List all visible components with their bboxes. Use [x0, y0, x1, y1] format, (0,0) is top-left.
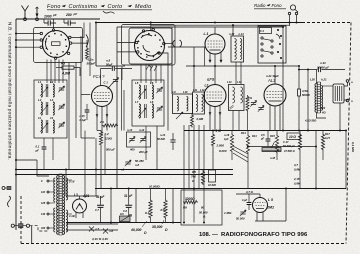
trimmer cap: [157, 89, 162, 91]
svg-text:L6: L6: [150, 81, 154, 85]
wire y47 left: [168, 46, 205, 48]
bracket symbol: [86, 35, 88, 48]
ground arrow: [36, 7, 38, 16]
svg-text:n.12: n.12: [139, 128, 145, 132]
svg-text:4,7 Ω: 4,7 Ω: [245, 190, 254, 194]
wire below speaker: [339, 103, 341, 131]
svg-text:50.000: 50.000: [236, 217, 245, 221]
svg-text:L.1: L.1: [204, 32, 209, 36]
svg-text:4Ω: 4Ω: [321, 111, 325, 115]
wire IF2 bottom leads: [232, 111, 234, 131]
wire left of FC4: [80, 36, 82, 138]
svg-text:μF: μF: [260, 138, 265, 141]
cap n.15 0,1uF: [85, 110, 90, 112]
svg-text:35,000: 35,000: [152, 225, 162, 229]
svg-text:Ω.: Ω.: [202, 215, 206, 219]
svg-text:4,8M: 4,8M: [61, 72, 71, 76]
wire S2 top to bus: [150, 23, 152, 32]
switch box radio/fono S3: [258, 26, 286, 63]
svg-text:Cortissimo: Cortissimo: [69, 4, 98, 10]
wire 2M1 bottom: [256, 212, 258, 221]
IF transformer row1: [231, 36, 244, 62]
trimmer C16: [258, 108, 263, 110]
resistor under FC4: [102, 124, 118, 127]
wire S1 right contacts: [71, 30, 84, 37]
svg-text:L10: L10: [183, 90, 188, 94]
svg-text:N.B. I commutatori sono indica: N.B. I commutatori sono indicati nella p…: [8, 22, 13, 160]
AL3 leads: [274, 66, 276, 84]
antenna: [24, 11, 26, 19]
svg-text:L7: L7: [135, 100, 139, 104]
svg-text:0,1μF: 0,1μF: [80, 119, 87, 122]
capacitor n.14: [170, 140, 175, 142]
capacitor 0,1uF left: [42, 147, 47, 149]
svg-text:pF: pF: [73, 12, 78, 16]
tone network resistors: [230, 133, 233, 153]
wire dashed right border: [346, 23, 351, 244]
wire mains to transformer: [30, 226, 49, 231]
wire x136: [135, 189, 137, 223]
svg-text:10.000Ω: 10.000Ω: [149, 185, 161, 189]
svg-text:C.17: C.17: [283, 140, 289, 144]
wire x157: [156, 126, 158, 170]
svg-text:pF: pF: [52, 13, 57, 17]
svg-text:120Ω: 120Ω: [105, 137, 113, 141]
svg-text:R5: R5: [192, 170, 196, 174]
wire x346: [345, 131, 347, 189]
S2 contacts: [135, 41, 137, 43]
svg-text:6F9: 6F9: [207, 77, 215, 82]
svg-text:n.10: n.10: [229, 32, 235, 36]
wire dashed mains left: [20, 196, 22, 244]
svg-text:110: 110: [41, 191, 46, 194]
svg-text:11: 11: [38, 116, 41, 120]
svg-text:1 MΩ: 1 MΩ: [224, 211, 232, 215]
wire plug down: [31, 226, 33, 244]
trimmer 50000: [240, 212, 245, 214]
svg-text:2,15: 2,15: [293, 177, 300, 181]
svg-text:R.6: R.6: [161, 208, 166, 212]
band switch S2: [135, 31, 165, 61]
S1 contacts: [40, 32, 42, 34]
svg-text:o: o: [351, 99, 353, 103]
resistor R6: [149, 199, 152, 219]
primary taps: [49, 180, 55, 182]
svg-text:n.13: n.13: [239, 32, 245, 36]
svg-text:200 μF: 200 μF: [138, 150, 148, 154]
wire left link y160: [16, 159, 37, 161]
diagonal wires: [233, 146, 248, 154]
wire long bus y188: [95, 188, 346, 190]
potentiometer volume: [120, 216, 131, 222]
wire x124: [123, 90, 125, 131]
wire coil box stubs: [52, 138, 54, 160]
wire x76 drop: [75, 63, 77, 139]
6F9 leads: [214, 66, 216, 85]
FC4 cathode leads: [96, 106, 98, 131]
wire bottom bus y222: [66, 222, 181, 224]
svg-text:RADIOFONOGRAFO TIPO 996: RADIOFONOGRAFO TIPO 996: [221, 232, 308, 238]
wire x105 drop: [104, 135, 106, 175]
wire x96 mid: [95, 138, 97, 170]
box shield around S2: [129, 28, 172, 64]
trimmer C15: [251, 103, 256, 105]
IF transformer T1 L11 L12: [193, 92, 205, 114]
svg-text:R14: R14: [252, 135, 257, 138]
svg-text:L3: L3: [74, 193, 78, 197]
wire y27 sub-bus: [117, 26, 283, 28]
svg-text:3200Ω: 3200Ω: [185, 197, 195, 201]
pilot lamps L7 L8: [66, 223, 118, 225]
box outer shield S2: [122, 25, 176, 66]
wire left vertical bus: [15, 19, 17, 230]
trimmer C1: [113, 80, 118, 82]
svg-text:160: 160: [41, 227, 46, 230]
svg-text:R15: R15: [270, 134, 275, 138]
wire x233 IF1 feed: [232, 25, 234, 36]
speaker terminals: [346, 80, 349, 83]
field coil R9 3200: [181, 190, 222, 225]
svg-text:0,9M: 0,9M: [197, 117, 204, 121]
wire misc top-left: [83, 23, 85, 31]
svg-text:C.7: C.7: [95, 209, 100, 212]
wire x121.5: [121, 69, 123, 131]
svg-text:2.800: 2.800: [216, 144, 225, 148]
svg-text:47.500 Ω: 47.500 Ω: [283, 149, 295, 153]
wire heater bus lower: [16, 174, 233, 176]
filter box: [110, 189, 112, 223]
svg-text:4,1V R 4,3V: 4,1V R 4,3V: [91, 237, 109, 241]
wire switchbox to bus: [282, 60, 284, 63]
svg-text:n.33: n.33: [320, 61, 326, 65]
svg-text:R13: R13: [241, 131, 246, 135]
svg-text:4,5Ω 50Ω: 4,5Ω 50Ω: [304, 119, 316, 123]
capacitor 0,5uF: [266, 139, 271, 141]
resistor R2 120ohm: [99, 131, 102, 147]
svg-text:0,8M: 0,8M: [294, 182, 301, 186]
capacitor n.9 50uF: [112, 66, 114, 71]
FC4 top lead: [101, 69, 112, 87]
svg-text:C.8: C.8: [123, 210, 128, 213]
svg-text:o: o: [351, 80, 353, 84]
wire under switches y66: [96, 65, 125, 67]
svg-text:5 M: 5 M: [216, 129, 222, 133]
wire pickup leads: [289, 15, 291, 26]
svg-text:Ω: Ω: [164, 228, 168, 232]
resistor 10ohm boxed: [287, 133, 300, 140]
trimmer cap next to 11: [59, 124, 64, 126]
svg-text:n.22: n.22: [320, 106, 326, 110]
svg-text:4,7: 4,7: [293, 163, 298, 167]
svg-text:50.000 μF: 50.000 μF: [283, 144, 295, 148]
svg-text:760: 760: [191, 175, 196, 179]
svg-text:2 A: 2 A: [99, 120, 104, 124]
svg-text:50.000: 50.000: [157, 137, 165, 141]
wire plate bus y66: [186, 65, 299, 67]
resistor R8: [246, 95, 249, 112]
svg-text:R9: R9: [183, 206, 187, 210]
box middle section border: [116, 27, 118, 189]
svg-text:L7: L7: [96, 227, 100, 231]
trimmer n.8 padder: [125, 162, 130, 164]
heater drops: [65, 170, 67, 197]
trimmer cap: [157, 108, 162, 110]
svg-text:FC4 ?: FC4 ?: [93, 74, 105, 79]
power transformer T4: [59, 174, 62, 235]
capacitor 1uF box: [209, 170, 216, 182]
wire x69 drop: [68, 63, 70, 170]
svg-text:A21: A21: [82, 194, 89, 198]
wire x37 drop: [37, 160, 49, 176]
svg-text:280: 280: [65, 13, 72, 17]
wire S2 right contacts: [165, 43, 172, 45]
wire x308: [307, 70, 309, 131]
svg-text:Corto: Corto: [108, 4, 123, 10]
wire x283: [282, 27, 284, 131]
svg-text:10.000: 10.000: [208, 183, 216, 187]
svg-text:L8: L8: [110, 229, 114, 233]
wires between IF rows: [235, 62, 237, 85]
wire left link y196: [66, 195, 98, 197]
resistor R1 500pF: [86, 47, 89, 60]
resistor R5 760ohm: [201, 170, 204, 185]
svg-text:500 μF: 500 μF: [106, 148, 115, 152]
svg-text:n.8: n.8: [135, 163, 139, 167]
wire S1 top contact: [53, 19, 55, 29]
svg-text:10 Ω: 10 Ω: [289, 135, 296, 139]
svg-text:0,27: 0,27: [325, 136, 331, 140]
resistor R7: [164, 199, 167, 219]
band switch S1: [43, 31, 70, 58]
svg-text:μF: μF: [35, 149, 40, 153]
svg-text:Medio: Medio: [135, 4, 151, 10]
svg-text:500pF: 500pF: [87, 62, 96, 66]
wire S2 left contacts: [117, 42, 136, 44]
capacitor 4,7: [247, 203, 252, 205]
box shield around S1: [34, 28, 83, 63]
coupling coil arcs: [173, 40, 182, 47]
svg-text:n.16: n.16: [224, 133, 230, 137]
box middle coil bank: [132, 80, 164, 126]
wire S1 left contacts to bus: [16, 33, 40, 35]
wire top main bus: [95, 22, 302, 24]
svg-text:R17: R17: [325, 132, 330, 136]
wire S2 drop wires: [140, 65, 142, 84]
wire dashed bottom border: [21, 243, 346, 245]
wire top antenna bus: [16, 18, 100, 20]
mains plug P1: [2, 187, 5, 190]
svg-text:Radio: Radio: [254, 3, 266, 8]
resistor R4 5M: [211, 133, 214, 147]
svg-text:8.000: 8.000: [219, 149, 227, 153]
svg-text:0,2: 0,2: [105, 132, 110, 136]
svg-text:80: 80: [201, 206, 205, 210]
svg-text:140: 140: [41, 213, 46, 216]
wire heater bus upper: [16, 169, 233, 171]
svg-text:108.: 108.: [199, 232, 211, 238]
mains plug P2: [11, 224, 14, 227]
wire second bus y25: [151, 24, 290, 26]
svg-text:L8: L8: [150, 100, 154, 104]
svg-text:10t: 10t: [120, 213, 124, 216]
svg-text:0,1 MΩ: 0,1 MΩ: [351, 142, 355, 153]
svg-text:C.4: C.4: [260, 29, 265, 33]
svg-text:125: 125: [41, 202, 46, 205]
svg-text:n.13: n.13: [127, 128, 133, 132]
wire S1 drop wires: [46, 60, 48, 84]
svg-text:—: —: [212, 232, 218, 238]
resistor R10 50000: [298, 66, 300, 89]
IF transformer T2: [229, 85, 245, 111]
box left coil bank: [34, 80, 67, 138]
svg-text:4,μF: 4,μF: [241, 199, 248, 202]
wire dashed top-right: [302, 22, 351, 24]
resistor R3 4,8M: [62, 66, 74, 69]
svg-text:400: 400: [129, 148, 135, 152]
L1 tube leads: [214, 27, 216, 34]
svg-text:C 1: C 1: [104, 81, 109, 85]
trimmer cap next to L1: [59, 88, 64, 90]
box padder trimmers: [127, 132, 151, 147]
svg-text:Ω: Ω: [143, 231, 147, 235]
mains cord squiggle: [8, 196, 11, 207]
svg-text:h.21: h.21: [321, 78, 327, 82]
svg-text:L 5: L 5: [268, 198, 273, 202]
oscillator coil box L9 L10: [173, 94, 193, 114]
svg-text:L13: L13: [227, 80, 232, 84]
svg-text:L5: L5: [135, 81, 139, 85]
svg-text:1μF: 1μF: [224, 137, 229, 141]
svg-text:40,000: 40,000: [130, 228, 141, 232]
resistor 0,9M: [191, 114, 194, 128]
svg-text:L20: L20: [310, 78, 315, 82]
brace: [103, 11, 115, 14]
tuning gang marks: [146, 65, 157, 71]
wire y130 long: [184, 130, 345, 132]
trimmer cap next to L3: [59, 106, 64, 108]
svg-text:0,8M: 0,8M: [294, 168, 301, 172]
speaker SP1: [333, 84, 344, 103]
svg-text:n.14: n.14: [160, 133, 166, 137]
svg-text:4-1B: 4-1B: [68, 214, 75, 218]
svg-text:n.18: n.18: [270, 157, 276, 160]
wire x316: [315, 131, 317, 189]
svg-text:x1: x1: [120, 168, 125, 172]
svg-text:Fono: Fono: [272, 3, 283, 8]
wire center bundle: [183, 125, 185, 223]
svg-text:Fono: Fono: [47, 4, 61, 10]
wire x204.5: [204, 47, 206, 66]
potentiometer tone: [262, 148, 281, 152]
svg-text:n.15: n.15: [80, 115, 86, 118]
svg-text:R.1: R.1: [145, 211, 150, 215]
wire tone line y146.5: [248, 146, 316, 148]
svg-text:1000: 1000: [44, 15, 52, 19]
svg-text:50000: 50000: [302, 93, 310, 97]
